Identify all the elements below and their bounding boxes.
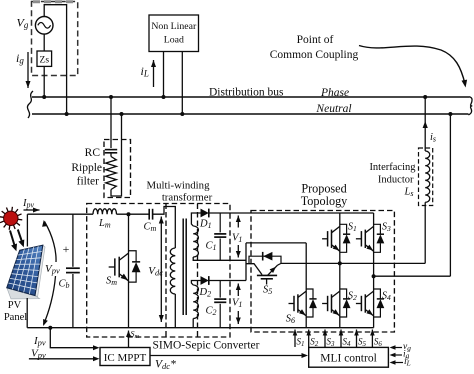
converter bottom rail: [27, 327, 373, 329]
arrow gate S3: [324, 330, 326, 348]
wire Zs to phase: [43, 66, 45, 97]
switch S1 IGBT: [339, 213, 341, 263]
diode DS5: [249, 256, 281, 264]
V1 arrow upper bottom: [237, 245, 239, 258]
grid source dashed box: [32, 2, 78, 76]
svg-text:Phase: Phase: [320, 87, 349, 99]
switch S2 IGBT: [339, 263, 341, 327]
inductor Lm: [93, 209, 116, 214]
capacitor C2 plates: [214, 298, 226, 300]
converter top wire: [27, 213, 93, 215]
wire output B to neutral: [449, 114, 451, 276]
wire source top: [44, 5, 66, 25]
svg-text:Panel: Panel: [4, 312, 27, 323]
svg-text:C1: C1: [206, 241, 217, 253]
proposed topology dashed box: [251, 211, 394, 333]
capacitor Cm: [148, 209, 150, 220]
svg-text:RC: RC: [85, 147, 101, 159]
svg-text:filter: filter: [77, 176, 100, 188]
sun disc: [4, 211, 18, 225]
wire Lm to Cm: [117, 213, 150, 215]
svg-text:V1: V1: [232, 233, 242, 245]
V1 arrow lower top: [237, 284, 239, 297]
capacitor Cb plates: [66, 267, 80, 269]
transformer dashed divider right: [197, 204, 199, 338]
bus right end brace: [468, 97, 472, 115]
wire Cm to primary: [153, 207, 176, 249]
switch S6 IGBT: [305, 290, 307, 328]
wire load-right to neutral: [181, 52, 183, 115]
arrow ig: [27, 52, 29, 88]
svg-text:transformer: transformer: [162, 192, 213, 204]
V1 arrow upper top: [237, 216, 239, 228]
irradiance arrow 2: [18, 230, 23, 244]
arrow gate S5: [356, 330, 358, 348]
neutral bus line: [32, 113, 469, 115]
wire output B: [374, 275, 451, 277]
PCC arrow curve: [359, 46, 465, 85]
arrow iL: [153, 60, 155, 87]
svg-text:Cm: Cm: [144, 222, 157, 234]
wire Vpv sense: [29, 358, 96, 360]
node source-phase: [42, 95, 46, 99]
node RC-neutral: [120, 112, 124, 116]
svg-text:PV: PV: [8, 300, 22, 311]
non linear load box: [149, 15, 199, 52]
Vdc arrow: [160, 217, 162, 323]
node load-neutral: [180, 112, 184, 116]
impedance Zs box: [37, 51, 52, 66]
wire source bottom to Zs: [43, 34, 45, 51]
wire D1 to bridge: [209, 212, 374, 214]
wire source right to neutral: [66, 25, 68, 114]
node RC-phase: [109, 95, 113, 99]
wire sec1 top lead: [191, 213, 200, 226]
svg-text:Load: Load: [164, 35, 184, 46]
arrow gate S4: [340, 330, 342, 348]
svg-text:Zs: Zs: [40, 56, 50, 66]
wire sec2 top lead: [191, 281, 200, 286]
node M1 vertical: [245, 243, 247, 281]
node outputB-neutral: [448, 112, 452, 116]
arrow Sm gate: [128, 331, 130, 348]
svg-text:Vdc: Vdc: [148, 265, 163, 278]
svg-text:Multi-winding: Multi-winding: [147, 180, 211, 192]
switch Sm IGBT: [128, 214, 130, 328]
svg-text:Sm: Sm: [106, 276, 117, 288]
wire sec2 bottom lead: [192, 319, 194, 328]
svg-text:Distribution bus: Distribution bus: [209, 87, 284, 99]
wire inductor to output A: [424, 202, 426, 263]
wire midline output A: [281, 262, 425, 264]
wire Vdc* to MLI: [150, 355, 305, 357]
wire M1 to S6: [305, 243, 307, 290]
svg-text:D1: D1: [199, 219, 212, 231]
V1 arrow lower bottom: [237, 311, 239, 324]
svg-text:Topology: Topology: [301, 194, 348, 208]
transformer secondary 1: [193, 226, 198, 257]
irradiance arrow 1: [10, 231, 15, 248]
PV panel grid: [12, 249, 24, 289]
svg-text:Ipv: Ipv: [33, 335, 46, 348]
capacitor C1 plates: [214, 233, 226, 235]
node load-phase: [162, 95, 166, 99]
node bridge B: [372, 274, 376, 278]
transformer primary winding: [170, 248, 175, 294]
svg-text:IC MPPT: IC MPPT: [104, 352, 147, 364]
sun rays: [15, 218, 22, 221]
wire PV minus lead: [26, 298, 28, 328]
arrow Ipv: [24, 209, 40, 211]
node bridge A: [338, 261, 342, 265]
wire primary bottom: [174, 294, 176, 328]
arrow is: [423, 121, 428, 128]
node Sm tap: [127, 212, 131, 216]
wire Ipv sense: [50, 328, 96, 348]
MLI control box: [309, 347, 389, 367]
transformer secondary 2: [193, 285, 198, 319]
wire sec1 bottom lead: [193, 257, 246, 260]
Vpv curve arrow: [44, 222, 57, 325]
wire RC bottom: [111, 114, 122, 196]
svg-text:+: +: [63, 242, 70, 256]
svg-text:MLI control: MLI control: [320, 353, 377, 365]
svg-text:S6: S6: [286, 314, 295, 326]
transformer core: [182, 219, 184, 316]
switch S5 collector lead: [246, 264, 262, 275]
AC source Vg circle: [35, 17, 53, 35]
svg-text:is: is: [430, 132, 436, 144]
capacitor Cb wire: [72, 214, 74, 267]
svg-text:Vdc*: Vdc*: [155, 359, 176, 372]
svg-text:S2: S2: [348, 291, 357, 303]
svg-text:Vpv: Vpv: [31, 348, 46, 361]
input vg: [392, 347, 402, 349]
SIMO converter dashed box: [87, 204, 230, 338]
wire D2 to node M1: [209, 280, 246, 282]
RC filter resistor R: [106, 157, 117, 190]
wire load-left to phase: [163, 52, 165, 98]
arrow gate S2: [308, 330, 310, 348]
svg-text:C2: C2: [206, 306, 217, 318]
svg-text:D2: D2: [199, 287, 212, 299]
inductor Ls dashed box: [419, 148, 433, 206]
switch S5 body: [257, 274, 277, 276]
arrow gate S6: [371, 330, 373, 348]
svg-text:SIMO-Sepic Converter: SIMO-Sepic Converter: [153, 340, 260, 352]
svg-text:iL: iL: [404, 357, 411, 368]
switch S4 IGBT: [373, 276, 375, 328]
inductor Ls coil: [425, 151, 430, 202]
input ig: [392, 354, 402, 356]
svg-text:Non Linear: Non Linear: [151, 21, 197, 32]
svg-text:S5: S5: [263, 285, 272, 297]
capacitor C1 wire: [219, 213, 221, 232]
svg-text:Lm: Lm: [98, 218, 111, 230]
wire phase to inductor: [424, 97, 426, 151]
diode D2: [201, 276, 209, 285]
svg-text:Ipv: Ipv: [22, 198, 35, 210]
svg-text:S1: S1: [348, 222, 357, 234]
node Ipv sense tap: [48, 326, 52, 330]
svg-text:Ls: Ls: [404, 187, 414, 199]
capacitor C2 wire: [219, 281, 221, 298]
svg-text:Cb: Cb: [59, 279, 70, 291]
diode D1: [201, 209, 209, 218]
wire phase to RC cap: [110, 97, 112, 148]
svg-text:Point of: Point of: [297, 34, 334, 46]
RC filter dashed box: [104, 140, 131, 198]
phase bus line: [32, 96, 470, 98]
svg-text:Common Coupling: Common Coupling: [270, 49, 359, 61]
wire PV plus lead: [26, 214, 28, 246]
input iL: [392, 362, 403, 364]
node source-neutral: [65, 112, 69, 116]
svg-text:Inductor: Inductor: [378, 175, 414, 186]
wire M1 top run: [246, 242, 306, 244]
switch S3 IGBT: [373, 213, 375, 276]
IC MPPT box: [100, 348, 150, 366]
svg-text:Interfacing: Interfacing: [369, 162, 416, 173]
wire RC cap to resistor: [110, 153, 112, 157]
svg-text:S3: S3: [382, 222, 391, 234]
transformer dashed divider left: [165, 204, 167, 338]
RC filter capacitor C: [105, 149, 117, 151]
svg-text:Vpv: Vpv: [45, 263, 60, 276]
svg-text:Neutral: Neutral: [315, 103, 351, 115]
arrow gate S1: [294, 330, 296, 348]
switch S5 emitter: [268, 265, 278, 275]
svg-text:Ripple: Ripple: [71, 162, 102, 174]
node inductor-phase: [423, 95, 427, 99]
svg-text:S4: S4: [382, 291, 391, 303]
svg-text:V1: V1: [232, 298, 242, 310]
bus left break: [27, 91, 33, 118]
